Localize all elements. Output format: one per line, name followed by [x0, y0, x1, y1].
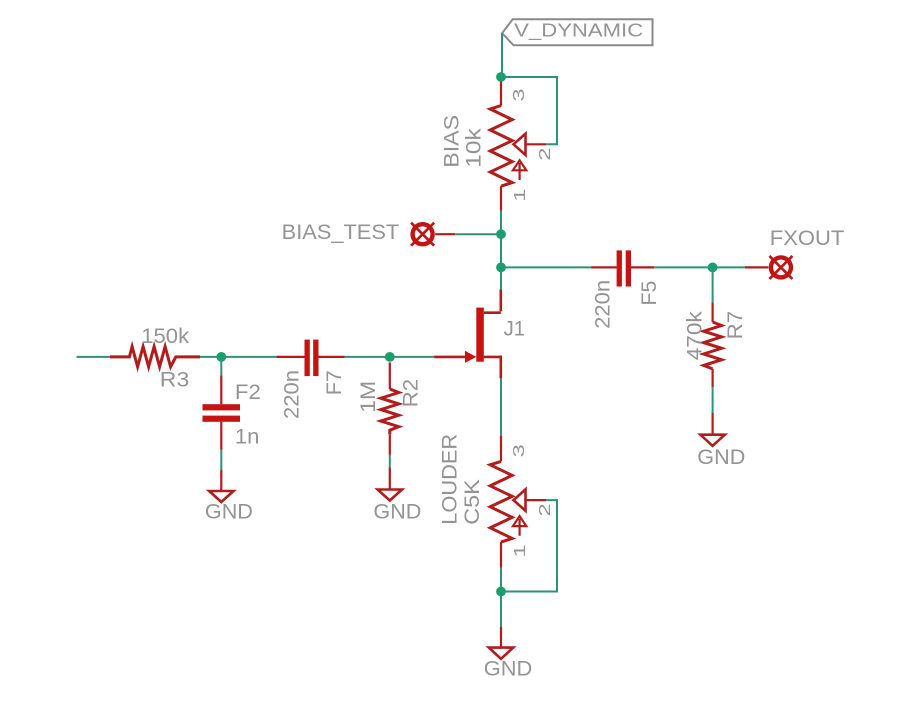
pad BIAS_TEST [282, 220, 456, 246]
svg-text:470k: 470k [682, 311, 706, 360]
svg-text:FXOUT: FXOUT [770, 226, 845, 250]
svg-text:3: 3 [511, 88, 528, 101]
svg-text:F7: F7 [322, 370, 346, 395]
trimmer arrow [518, 519, 520, 536]
svg-text:2: 2 [537, 503, 554, 516]
wire junction to R7 [712, 267, 714, 302]
svg-text:R3: R3 [160, 367, 190, 391]
node junction BIAS_TEST [496, 229, 506, 239]
resistor R2 [356, 362, 422, 455]
svg-text:BIAS: BIAS [440, 115, 464, 168]
wire pot pin1 to junction [500, 568, 502, 592]
capacitor F2 [203, 375, 261, 449]
node junction F7/R2/gate [385, 352, 395, 362]
node junction F5/R7 [708, 263, 718, 273]
wire pot BIAS pin2 loop [501, 77, 557, 144]
pad FXOUT [745, 226, 844, 279]
svg-text:C5K: C5K [460, 479, 484, 525]
wiper pin 2 [514, 489, 526, 510]
wire R7 to gnd [712, 387, 714, 413]
wire R2 to gnd [389, 455, 391, 467]
svg-text:220n: 220n [279, 370, 303, 419]
wire junction to F5 [501, 266, 591, 268]
wire junction to F2 [220, 357, 222, 376]
wire R3 to junction [200, 356, 221, 358]
svg-text:GND: GND [205, 500, 253, 524]
svg-text:10k: 10k [461, 128, 485, 168]
svg-text:GND: GND [484, 657, 533, 681]
ground GND (F2) [205, 470, 253, 524]
ground GND (bottom) [484, 627, 533, 681]
capacitor F7 [277, 340, 347, 419]
wire pad to junction [455, 233, 501, 235]
svg-text:1M: 1M [356, 381, 380, 413]
wire F7 to junction [345, 356, 390, 358]
node junction drain/F5 [496, 263, 506, 273]
svg-text:1: 1 [512, 188, 529, 201]
ground GND (R7) [697, 413, 745, 469]
svg-text:J1: J1 [504, 316, 525, 340]
svg-text:R7: R7 [723, 311, 747, 340]
wire input net left [77, 356, 111, 358]
svg-text:1n: 1n [235, 425, 260, 449]
svg-text:F2: F2 [235, 380, 261, 404]
wire junction to pot [500, 77, 502, 82]
flag V_DYNAMIC [502, 19, 652, 45]
svg-text:GND: GND [373, 500, 421, 524]
wire flag to junction [501, 33, 503, 77]
wire junction to FXOUT pad [713, 266, 745, 268]
svg-text:1: 1 [512, 544, 529, 557]
resistor R3 [110, 324, 200, 391]
wire F5 to junction R7 [654, 266, 712, 268]
wire junction to junction F5 [500, 234, 502, 267]
transistor J1 [434, 289, 525, 378]
wire F2 to gnd [220, 450, 222, 470]
resistor R7 [682, 302, 747, 387]
svg-text:GND: GND [697, 445, 745, 469]
svg-text:LOUDER: LOUDER [438, 434, 462, 525]
svg-text:V_DYNAMIC: V_DYNAMIC [514, 19, 643, 41]
wire pot to junction BIAS_TEST [500, 211, 502, 235]
wire junction to gnd [500, 592, 502, 628]
node junction bottom [496, 587, 506, 597]
wire junction to gate [390, 356, 434, 358]
potentiometer LOUDER [438, 434, 554, 568]
svg-text:F5: F5 [637, 281, 661, 306]
node junction top [496, 72, 506, 82]
wire junction to drain [500, 267, 502, 289]
svg-text:2: 2 [537, 147, 554, 160]
wiper pin 2 [514, 134, 526, 155]
wire junction to F7 [221, 356, 276, 358]
potentiometer BIAS [440, 82, 554, 211]
svg-text:3: 3 [511, 444, 528, 457]
ground GND (R2) [373, 467, 421, 524]
svg-text:150k: 150k [141, 324, 189, 348]
svg-text:BIAS_TEST: BIAS_TEST [282, 220, 400, 244]
capacitor F5 [591, 250, 661, 329]
svg-text:R2: R2 [399, 379, 423, 408]
trimmer arrow [518, 163, 520, 180]
wire source to pot LOUDER [500, 378, 502, 436]
svg-text:220n: 220n [591, 280, 615, 329]
node junction R3/F2 [216, 352, 226, 362]
wire pot LOUDER pin2 loop [501, 500, 557, 591]
